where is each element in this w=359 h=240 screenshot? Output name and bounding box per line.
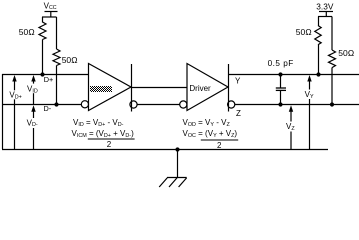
- wire: D+ line: [2, 74, 89, 76]
- svg-text:VCC: VCC: [44, 2, 57, 12]
- node dot cap top: [278, 72, 282, 76]
- svg-text:Y: Y: [235, 77, 241, 86]
- svg-text:50Ω: 50Ω: [296, 27, 312, 37]
- arrow VY: [309, 78, 311, 149]
- node dot Y / resistor: [316, 72, 320, 76]
- arrow VID: [33, 78, 35, 104]
- capacitor C1 bottom lead: [280, 90, 282, 104]
- node dot D+ / resistor: [40, 72, 44, 76]
- label VY: [304, 90, 316, 100]
- wire: Y output line: [229, 74, 359, 76]
- driver U2 triangle: [187, 64, 228, 111]
- capacitor C1 plates: [276, 87, 286, 89]
- resistor 50ohm left-lower zigzag: [53, 49, 60, 66]
- wire: right-left branch lead: [318, 17, 320, 26]
- node dot cap bottom: [278, 102, 282, 106]
- svg-text:VICM = (VD+ + VD-): VICM = (VD+ + VD-): [72, 129, 135, 139]
- label VID: [27, 84, 40, 95]
- power 3.3V bar: [319, 11, 333, 13]
- node dot Z / resistor: [330, 102, 334, 106]
- wire: ground rail: [2, 149, 328, 151]
- svg-text:VOC = (VY + VZ): VOC = (VY + VZ): [183, 129, 238, 139]
- wire: ground tap: [177, 150, 179, 178]
- svg-text:D-: D-: [44, 104, 52, 113]
- resistor 50ohm right-lower zigzag: [329, 50, 336, 68]
- driver inverting input bubble: [180, 101, 187, 108]
- receiver output bar: [131, 64, 133, 112]
- wire: D- line: [2, 104, 82, 106]
- wire: receiver to driver top: [132, 87, 188, 89]
- wire: right-left branch to Y: [318, 45, 320, 75]
- wire: left branch top lead: [42, 17, 44, 23]
- receiver inverting output bubble: [130, 101, 137, 108]
- arrow VZ: [290, 108, 292, 149]
- arrow VD+: [14, 78, 16, 149]
- wire: Vcc branch bar: [42, 16, 57, 18]
- power Vcc bar: [45, 11, 58, 13]
- wire: right branch upper lead: [56, 17, 58, 49]
- svg-text:50Ω: 50Ω: [19, 27, 35, 37]
- label VD-: [27, 118, 40, 128]
- resistor 50ohm right-upper zigzag: [315, 26, 321, 45]
- wire: 3.3V stub: [325, 12, 327, 17]
- svg-text:2: 2: [217, 141, 222, 150]
- label VD+: [9, 90, 23, 100]
- svg-text:3.3V: 3.3V: [316, 2, 334, 12]
- svg-text:50Ω: 50Ω: [62, 55, 78, 65]
- receiver inverting input bubble: [81, 101, 88, 108]
- wire: left edge vertical bus: [2, 74, 4, 149]
- wire: left branch to D+: [42, 40, 44, 75]
- resistor 50ohm left-upper zigzag: [39, 22, 46, 40]
- arrow VD-: [33, 108, 35, 149]
- svg-text:VOD = VY - VZ: VOD = VY - VZ: [183, 118, 231, 128]
- svg-text:2: 2: [107, 140, 112, 149]
- wire: right-right branch to Z (crosses Y): [331, 68, 333, 105]
- svg-text:D+: D+: [44, 75, 54, 84]
- wire: 3.3V branch bar: [318, 16, 332, 18]
- wire: right-right branch lead: [331, 17, 333, 51]
- capacitor C1 0.5pF top lead: [280, 75, 282, 88]
- wire: Vcc stub: [50, 12, 52, 18]
- svg-text:50Ω: 50Ω: [338, 48, 354, 58]
- svg-text:0.5 pF: 0.5 pF: [268, 59, 294, 68]
- ground symbol: [167, 177, 187, 179]
- label VZ: [286, 122, 298, 132]
- svg-text:Z: Z: [236, 109, 241, 118]
- driver inverting output bubble: [228, 101, 235, 108]
- node dot D- / resistor: [54, 102, 58, 106]
- node dot ground tap: [175, 147, 179, 151]
- svg-text:Driver: Driver: [189, 84, 211, 93]
- driver output bar: [228, 64, 230, 112]
- svg-text:VID = VD+ - VD-: VID = VD+ - VD-: [73, 118, 124, 128]
- receiver hatch shading: [90, 86, 112, 92]
- receiver U1 triangle: [89, 64, 132, 111]
- wire: right branch to D- (crosses D+): [56, 66, 58, 105]
- wire: Z output line: [235, 104, 359, 106]
- wire: receiver to driver bottom: [137, 104, 180, 106]
